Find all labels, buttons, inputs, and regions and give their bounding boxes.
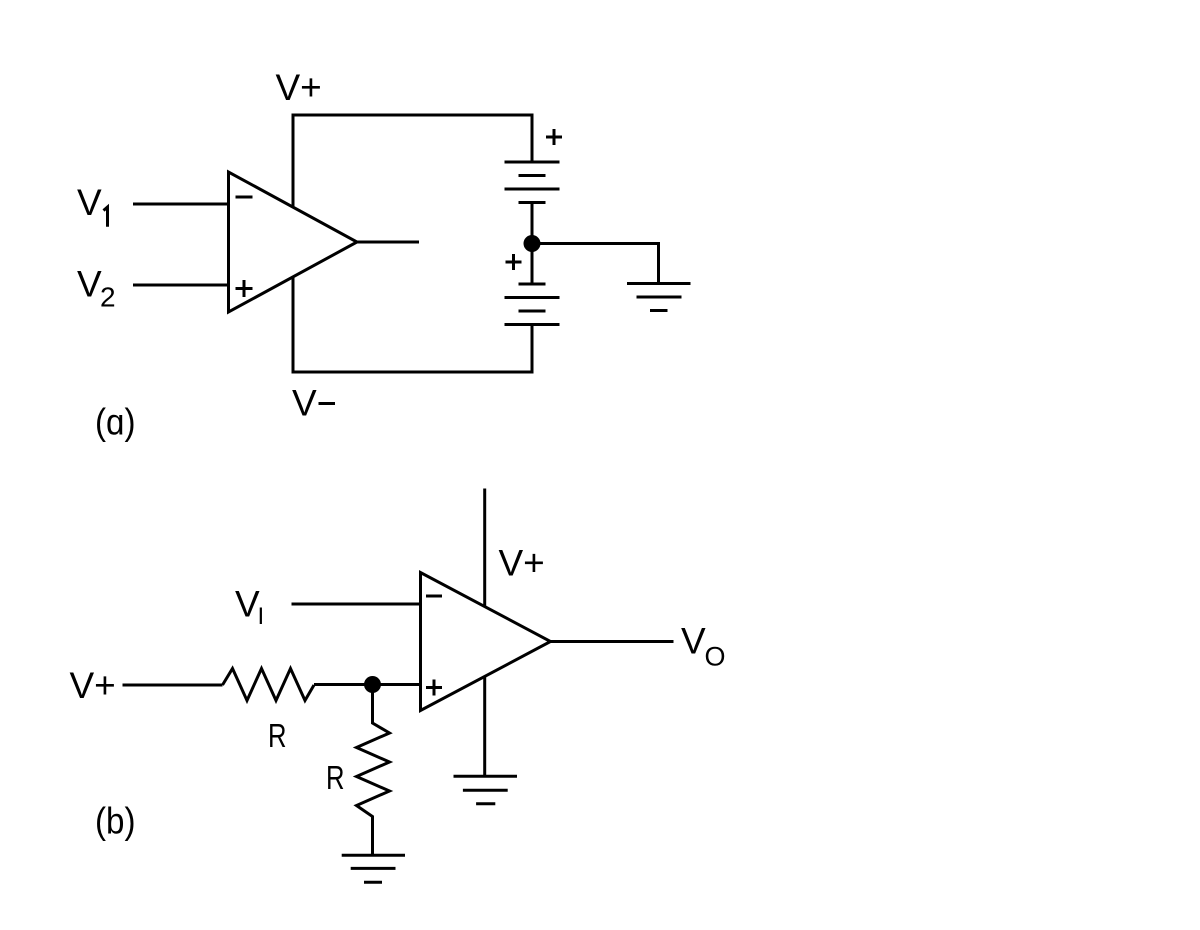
svg-text:V: V — [77, 182, 102, 223]
node junction dot (b) — [364, 676, 381, 693]
node V1 label — [77, 182, 102, 223]
resistor R2 value label R — [326, 759, 345, 796]
battery B1 + label — [546, 129, 562, 145]
resistor R1 — [223, 669, 315, 701]
resistor R1 value label R — [268, 717, 287, 754]
svg-text:V+: V+ — [70, 665, 116, 706]
wire op-amp U2 to ground — [483, 677, 486, 777]
resistor R2 — [357, 685, 390, 856]
svg-text:V+: V+ — [499, 543, 545, 584]
wire VI input — [292, 603, 421, 606]
node V+ label (b input) — [70, 665, 116, 706]
wire V2 input — [133, 284, 229, 287]
svg-text:2: 2 — [100, 282, 116, 313]
wire V+ rail — [293, 115, 532, 207]
ground (a) — [627, 284, 691, 311]
node V+ supply label (b) — [499, 543, 545, 584]
label (b) — [95, 801, 136, 842]
wire V1 input — [133, 203, 229, 206]
wire output U2 — [551, 640, 674, 643]
wire V+ input (b) — [123, 684, 223, 687]
node junction dot (a) — [524, 235, 541, 252]
node VO label — [681, 621, 726, 672]
battery B2 + label — [506, 254, 522, 270]
svg-text:V+: V+ — [276, 67, 322, 108]
svg-text:V: V — [292, 383, 317, 424]
op-amp U2 — [421, 573, 551, 711]
svg-text:O: O — [705, 642, 726, 672]
wire output stub U1 — [357, 241, 419, 244]
wire B1 to junction — [531, 203, 534, 244]
wire resistor R1 to op-amp — [314, 683, 421, 686]
ground (b lower) — [342, 855, 405, 882]
svg-text:I: I — [258, 603, 265, 630]
wire V- rail — [293, 277, 532, 372]
svg-text:(b): (b) — [95, 801, 136, 842]
svg-text:R: R — [268, 717, 287, 754]
op-amp U1 non-inverting input marker + — [236, 280, 253, 297]
svg-text:R: R — [326, 759, 345, 796]
wire junction to B2 — [531, 244, 534, 285]
node V1 label subscript 1 — [104, 207, 108, 227]
ground (b op-amp) — [454, 776, 518, 804]
op-amp U2 non-inverting input marker + — [426, 680, 442, 696]
op-amp U2 inverting input marker - — [426, 595, 442, 598]
svg-text:V: V — [681, 621, 706, 662]
node V+ label (a) — [276, 67, 322, 108]
wire junction to ground (a) — [532, 244, 659, 284]
node VI label — [235, 584, 264, 631]
node V2 label — [77, 264, 116, 313]
svg-text:V: V — [77, 264, 102, 305]
svg-text:V: V — [235, 584, 260, 625]
op-amp U1 — [229, 172, 358, 312]
node V- label — [292, 383, 317, 424]
node V- label minus stroke — [319, 402, 336, 405]
battery B2 — [505, 284, 560, 325]
label (a) — [95, 402, 136, 443]
wire V+ supply (b) — [483, 489, 486, 607]
battery B1 — [505, 162, 560, 203]
svg-text:(ɑ): (ɑ) — [95, 402, 136, 443]
op-amp U1 inverting input marker - — [236, 196, 253, 199]
